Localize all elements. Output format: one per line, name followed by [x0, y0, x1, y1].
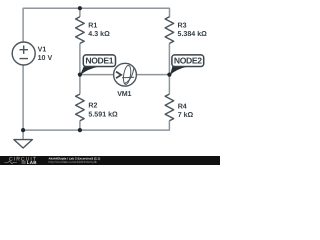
- svg-text:V1: V1: [38, 46, 47, 54]
- svg-text:LAB: LAB: [27, 160, 37, 165]
- resistor R3: [165, 17, 174, 44]
- svg-text:VM1: VM1: [117, 90, 131, 98]
- svg-text:R2: R2: [88, 102, 97, 110]
- svg-text:R4: R4: [178, 102, 187, 110]
- wire: top rail with left corner down to V1 and right corner to R3: [23, 8, 169, 42]
- wire: R3 bottom through NODE2 to R4 top: [168, 43, 170, 94]
- footer bar: [0, 156, 220, 165]
- junction dot bottom left: [21, 128, 25, 132]
- svg-text:7 kΩ: 7 kΩ: [178, 111, 194, 119]
- svg-text:NODE1: NODE1: [85, 56, 113, 66]
- svg-text:4.3 kΩ: 4.3 kΩ: [88, 30, 110, 38]
- wire: R2 bottom stub: [79, 121, 81, 130]
- wire: bottom rail with right corner up to R4: [23, 121, 169, 130]
- node NODE1 flag: [80, 66, 99, 75]
- resistor R1: [76, 17, 85, 44]
- wire: voltmeter right terminal to NODE2: [136, 74, 169, 76]
- junction dot NODE1: [78, 73, 82, 77]
- node NODE2 flag: [170, 66, 188, 75]
- svg-text:R1: R1: [88, 22, 97, 30]
- voltmeter VM1: [114, 63, 137, 86]
- wire: NODE1 to voltmeter left terminal: [80, 74, 114, 76]
- svg-text:5.591 kΩ: 5.591 kΩ: [88, 111, 118, 119]
- wire: ground stub: [22, 130, 24, 140]
- junction dot top R1: [78, 6, 82, 10]
- resistor R4: [165, 94, 174, 121]
- voltage source V1: [12, 42, 35, 65]
- svg-text:10 V: 10 V: [38, 54, 53, 62]
- wire: R1 bottom through NODE1 to R2 top: [79, 43, 81, 94]
- junction dot bottom R2: [78, 128, 82, 132]
- resistor R2: [76, 94, 85, 121]
- wire: R1 top stub from top rail: [79, 8, 81, 17]
- junction dot NODE2: [167, 73, 171, 77]
- svg-text:R3: R3: [178, 22, 187, 30]
- wire: left rail V1 bottom to bottom rail: [22, 65, 24, 130]
- svg-text:NODE2: NODE2: [174, 56, 202, 66]
- svg-text:http://circuitlab.com/c3d293m5: http://circuitlab.com/c3d293m5z5ydk: [49, 160, 98, 164]
- ground: [14, 140, 32, 148]
- svg-text:5.384 kΩ: 5.384 kΩ: [178, 30, 208, 38]
